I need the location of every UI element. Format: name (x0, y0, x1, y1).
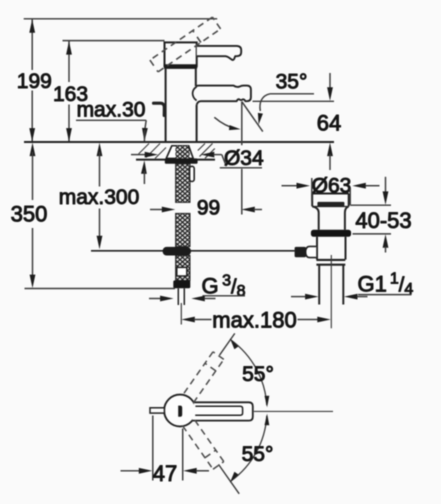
hose ferrule (177, 267, 187, 276)
waste rod port (295, 246, 317, 257)
svg-text:40-53: 40-53 (355, 208, 411, 233)
svg-text:55°: 55° (242, 443, 274, 466)
waste body rings (316, 260, 345, 265)
35deg angled line (242, 102, 263, 132)
svg-text:Ø63: Ø63 (312, 174, 352, 197)
waste neck (312, 206, 349, 229)
top view lever outline (192, 402, 253, 420)
dimension dia34 (131, 147, 264, 170)
deck top line (24, 141, 334, 143)
label max.30 (76, 99, 148, 142)
dashed handle upper 55deg (183, 352, 224, 403)
extension line 163 ref (63, 40, 165, 42)
faucet body sides (166, 69, 197, 142)
dimension G1-1/4 arrows (291, 294, 368, 300)
pop-up rod (91, 250, 295, 252)
supply pipe end (178, 288, 184, 324)
rotation arc lower (230, 414, 269, 483)
rod joint (163, 247, 191, 256)
svg-text:350: 350 (11, 202, 48, 227)
dimension 47 (121, 416, 210, 487)
dimension 199 (17, 19, 52, 142)
extension line top (199 ref) (24, 18, 218, 20)
label 55deg upper (242, 363, 274, 386)
waste lower body (317, 237, 346, 260)
label G1-1/4 (358, 271, 414, 299)
dimension 350 (11, 143, 48, 289)
supply hose lower (176, 255, 190, 280)
svg-text:47: 47 (153, 461, 177, 486)
top view pull-rod tick (150, 408, 164, 413)
svg-text:64: 64 (317, 111, 341, 136)
svg-text:max.30: max.30 (77, 99, 146, 122)
spout bottom ref line (253, 100, 335, 102)
label G3/8 (202, 273, 246, 301)
label 55deg lower (242, 443, 274, 466)
deck hatch right (198, 144, 215, 159)
supply hose middle (176, 213, 190, 246)
dimension 40-53 (355, 177, 411, 253)
faucet cap bottom bar (164, 64, 197, 69)
top view body circle (164, 395, 196, 427)
40-53 ref lines (350, 205, 391, 234)
svg-text:199: 199 (17, 70, 52, 93)
waste flange (311, 230, 351, 237)
label 35deg (258, 71, 314, 125)
dia63 extension lines (312, 178, 350, 205)
waste plug insert bar (317, 202, 344, 207)
max.30 lower arrow (141, 160, 147, 184)
dashed handle lower 55deg (183, 418, 224, 469)
lever arm (197, 46, 241, 60)
dimension max.300 (59, 143, 140, 250)
bottom ref line (25, 288, 176, 290)
supply hose upper (176, 164, 190, 203)
svg-text:55°: 55° (242, 363, 274, 386)
top view centerline (254, 410, 333, 412)
mounting washer (165, 158, 198, 163)
top view cartridge mark (178, 406, 182, 417)
dimension max.180 (181, 308, 330, 333)
top view lever inner (195, 406, 242, 415)
rotation arc upper (230, 338, 269, 407)
waste tailpipe (319, 265, 343, 305)
deck hatch left (139, 144, 167, 159)
dimension dia63 (282, 174, 380, 197)
spout (193, 86, 251, 105)
faucet cap (165, 42, 197, 66)
dimension G3/8 arrows (149, 296, 216, 302)
svg-text:99: 99 (197, 197, 220, 220)
35deg arc left (214, 117, 240, 130)
dimension 64 (317, 73, 341, 170)
svg-text:max.300: max.300 (59, 186, 140, 209)
handle axis line upper (220, 333, 235, 355)
pull-rod knob (154, 103, 165, 115)
pull rod below deck (190, 166, 195, 181)
waste centerline (330, 255, 332, 328)
deck bottom line (136, 159, 215, 161)
svg-text:max.180: max.180 (212, 308, 296, 333)
dimension 99 (150, 197, 262, 220)
dashed lever (phantom position) (150, 17, 221, 72)
dimension 163 (53, 41, 88, 142)
hose nut (173, 280, 190, 288)
shank flange (166, 146, 193, 159)
spout tip extension line (241, 102, 243, 215)
waste plug top (312, 194, 349, 207)
svg-text:35°: 35° (276, 71, 308, 94)
svg-text:Ø34: Ø34 (224, 147, 264, 170)
handle axis line lower (219, 464, 240, 493)
